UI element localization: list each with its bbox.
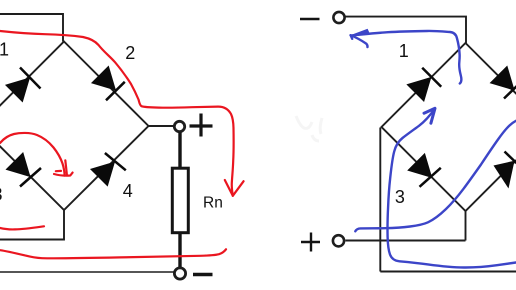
wire bottom rail right (380, 271, 516, 273)
blue path: bottom rail, up left side, arrow to diode 1 (388, 109, 516, 268)
wire resistor bottom lead (178, 234, 181, 268)
diode D1 (upper-left branch, left bridge) (5, 69, 39, 103)
blue arrowhead mid (up-right, toward diode 1) (424, 108, 435, 123)
diode D2 (upper-right branch, right bridge) (490, 65, 516, 99)
red arrowhead (down, near Rn) (225, 180, 244, 196)
red arc arrow over diode 3 (0, 133, 65, 176)
wire bottom rail to - node (0, 271, 174, 273)
plus sign (right circuit) (301, 233, 320, 252)
wire + terminal to bottom vertex (346, 240, 466, 242)
diode D2 (upper-right branch, left bridge) (91, 65, 125, 99)
diode D3 (lower-left branch, left bridge) (5, 152, 39, 186)
red long bottom stroke (0, 249, 226, 258)
wire top AC lead left circuit (0, 14, 63, 42)
blue path top: apex squiggle, along top wire leftwards (352, 31, 461, 84)
svg-text:Rn: Rn (203, 195, 223, 212)
wire resistor top lead (178, 133, 181, 169)
red arrowhead scribble (down-right, centre of bridge) (54, 160, 73, 175)
wire bottom vertex drop (0, 210, 64, 240)
node - (left circuit) (174, 268, 185, 279)
svg-text:3: 3 (395, 187, 405, 207)
plus sign at + node (190, 114, 213, 137)
svg-text:2: 2 (125, 43, 135, 63)
red short stroke lower-left (0, 226, 44, 229)
wire top: - terminal to apex (345, 17, 466, 43)
faint watermark (296, 116, 322, 141)
diode D4 (lower-right branch, left bridge) (90, 153, 124, 187)
svg-text:3: 3 (0, 184, 3, 204)
wire right vertex to + node (149, 125, 174, 127)
wire left vertex down (379, 128, 381, 272)
diode D1 (upper-left branch, right bridge) (406, 68, 440, 102)
diode D3 (lower-left branch, right bridge) (407, 153, 441, 187)
node + (left circuit) (174, 121, 184, 131)
minus sign at - node (193, 273, 213, 276)
svg-text:1: 1 (0, 39, 9, 59)
svg-text:4: 4 (123, 181, 133, 201)
wire diamond bridge left (0, 42, 149, 211)
diode D4 (lower-right branch, right bridge) (494, 161, 515, 189)
terminal - (right circuit) (333, 12, 344, 23)
blue arrowhead left (top) (351, 29, 370, 36)
blue path: + terminal out, up through diode 4 branch, to right edge (355, 121, 516, 232)
red path top: in from left, over apex, down along diode 2, to + node, down to arrow (0, 31, 234, 196)
wire bottom vertex drop (465, 211, 467, 241)
wire diamond bridge right (382, 43, 516, 211)
minus sign (right circuit) (300, 18, 320, 21)
svg-text:1: 1 (399, 41, 409, 61)
resistor Rn (172, 168, 188, 233)
terminal + (right circuit) (333, 235, 344, 246)
